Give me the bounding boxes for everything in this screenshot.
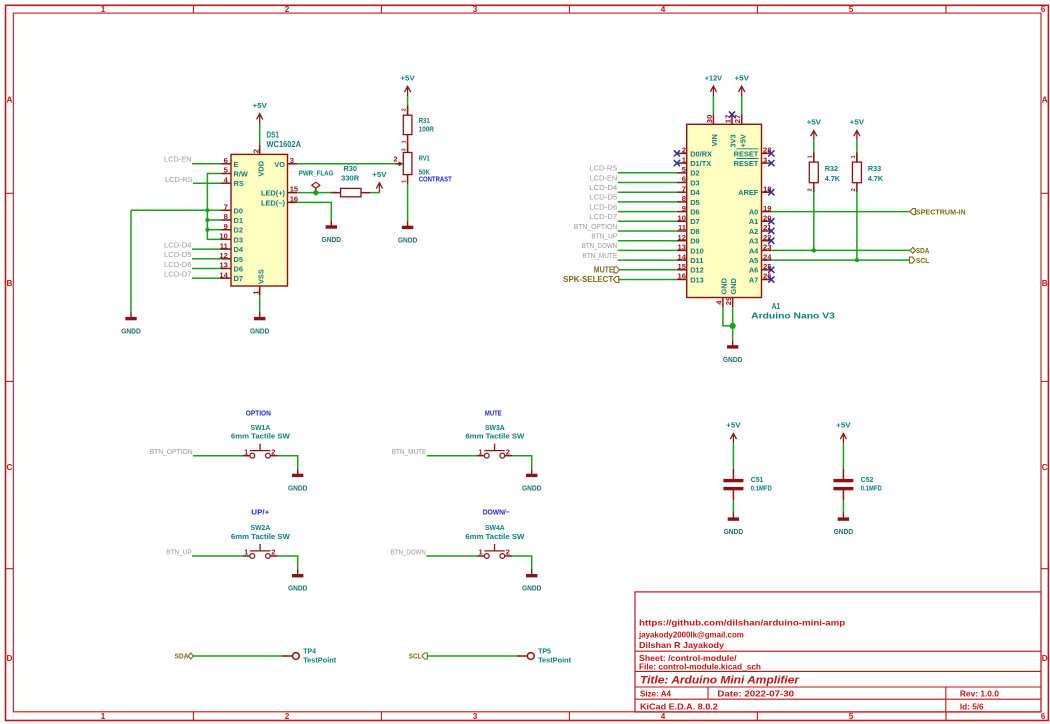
potentiometer RV1 (407, 143, 409, 153)
lcd pin 5 (R/W) (221, 173, 231, 175)
svg-text:R30: R30 (343, 164, 357, 173)
lcd pin 7 (D0) (221, 209, 231, 211)
svg-text:A6: A6 (749, 266, 758, 275)
wire SCL to TP5 (427, 655, 520, 657)
svg-text:LED(−): LED(−) (261, 198, 286, 207)
svg-text:TP4: TP4 (303, 647, 317, 656)
svg-text:6: 6 (224, 156, 228, 165)
power +5V (LCD VDD) (259, 114, 261, 124)
svg-text:C: C (6, 463, 12, 472)
svg-text:BTN_OPTION: BTN_OPTION (574, 222, 618, 231)
wire VSS to ground (259, 296, 261, 312)
power +5V (backlight) (378, 183, 380, 193)
arduino pin 14 (D11) (677, 259, 687, 261)
svg-text:5: 5 (849, 5, 854, 14)
svg-text:3: 3 (290, 156, 294, 165)
testpoint TP5 (518, 655, 528, 657)
svg-text:Id: 5/6: Id: 5/6 (960, 701, 984, 711)
svg-text:SPECTRUM-IN: SPECTRUM-IN (916, 207, 966, 216)
svg-text:3: 3 (473, 712, 478, 721)
svg-text:A5: A5 (749, 256, 758, 265)
svg-text:GNDD: GNDD (398, 235, 418, 244)
arduino pin 26 (A7) (762, 279, 772, 281)
arduino pin 9 (D6) (677, 211, 687, 213)
wire D0 to gnd rail (131, 209, 221, 211)
lcd pin 3 (VO) (288, 163, 298, 165)
svg-text:3: 3 (763, 155, 767, 164)
svg-text:+5V: +5V (726, 421, 740, 430)
svg-text:MUTE: MUTE (594, 265, 614, 274)
svg-text:23: 23 (763, 243, 771, 252)
svg-text:A0: A0 (749, 208, 758, 217)
svg-text:7: 7 (682, 184, 686, 193)
svg-text:LCD-RS: LCD-RS (165, 175, 193, 184)
arduino pin 30 (VIN) (712, 115, 714, 125)
svg-text:6mm Tactile SW: 6mm Tactile SW (231, 432, 291, 441)
svg-text:SPK-SELECT: SPK-SELECT (563, 275, 613, 284)
no-connect D1/TX (674, 160, 680, 166)
wire GND pins to ground (723, 307, 733, 326)
svg-text:LCD-D6: LCD-D6 (589, 202, 617, 211)
svg-text:RESET: RESET (734, 149, 759, 158)
svg-text:4.7K: 4.7K (868, 174, 884, 183)
lcd pin 14 (D7) (221, 277, 231, 279)
resistor R30 (331, 192, 340, 194)
wire BTN_UP to SW2A (192, 555, 243, 557)
ground GNDD (arduino) (732, 340, 734, 345)
svg-text:2: 2 (402, 108, 408, 111)
svg-text:9: 9 (224, 222, 228, 231)
wire BTN_OPTION (618, 230, 677, 232)
svg-text:D8: D8 (690, 227, 699, 236)
svg-text:1: 1 (101, 5, 106, 14)
svg-text:KiCad E.D.A. 8.0.2: KiCad E.D.A. 8.0.2 (640, 701, 718, 711)
svg-text:D6: D6 (690, 208, 699, 217)
svg-text:7: 7 (224, 203, 228, 212)
svg-text:13: 13 (678, 243, 686, 252)
power +5V (C52) (842, 433, 844, 443)
global label SPECTRUM-IN (910, 209, 915, 215)
svg-text:100R: 100R (419, 124, 435, 133)
svg-text:RV1: RV1 (419, 153, 430, 162)
svg-text:TestPoint: TestPoint (303, 656, 337, 665)
svg-text:1: 1 (251, 290, 260, 295)
wire gnd rail down (130, 210, 132, 312)
svg-text:LCD-D6: LCD-D6 (164, 260, 192, 269)
wire RV1 to ground (407, 184, 409, 221)
wire C51 to ground (732, 500, 734, 512)
wire LCD-RS to pin RS (193, 182, 221, 184)
svg-text:0.1MFD: 0.1MFD (751, 483, 772, 492)
lcd pin 6 (E) (221, 163, 231, 165)
svg-text:15: 15 (678, 262, 687, 271)
lcd pin 2 (VDD) top (259, 145, 261, 155)
svg-text:D0/RX: D0/RX (690, 149, 712, 158)
ground GNDD (C51) (732, 513, 734, 518)
arduino pin 29 (GND) (732, 298, 734, 308)
svg-text:24: 24 (763, 252, 772, 261)
svg-text:16: 16 (290, 194, 298, 203)
svg-text:R33: R33 (868, 164, 881, 173)
lcd pin 13 (D6) (221, 268, 231, 270)
global label SCL (910, 257, 915, 263)
wire to D2 (207, 229, 221, 231)
arduino pin 16 (D13) (677, 279, 687, 281)
svg-text:2: 2 (285, 5, 290, 14)
lcd pin 16 (LED-) (288, 201, 298, 203)
svg-text:D5: D5 (234, 255, 243, 264)
no-connect A7 (768, 276, 774, 282)
wire +5V to VDD (259, 124, 261, 145)
svg-text:2: 2 (506, 447, 510, 456)
wire R30 to +5V (370, 192, 379, 194)
svg-text:BTN_DOWN: BTN_DOWN (582, 241, 618, 250)
svg-text:4: 4 (714, 300, 723, 305)
junction D2/bus (205, 228, 209, 232)
wire LCD-D7 (192, 277, 221, 279)
svg-text:4: 4 (661, 5, 666, 14)
svg-text:VSS: VSS (256, 269, 265, 284)
arduino pin 18 (AREF) (762, 191, 772, 193)
svg-text:6mm Tactile SW: 6mm Tactile SW (465, 532, 525, 541)
svg-text:8: 8 (224, 212, 228, 221)
svg-text:29: 29 (724, 297, 733, 306)
svg-text:+12V: +12V (705, 73, 722, 82)
svg-text:2: 2 (251, 149, 260, 153)
junction R33 (855, 258, 859, 262)
svg-text:SDA: SDA (916, 246, 930, 255)
svg-text:A: A (1042, 96, 1048, 105)
svg-text:LCD-EN: LCD-EN (590, 173, 618, 182)
arduino pin 25 (A6) (762, 269, 772, 271)
svg-text:A2: A2 (749, 227, 758, 236)
svg-text:TP5: TP5 (538, 647, 551, 656)
lcd pin 11 (D4) (221, 248, 231, 250)
wire SDA to TP4 (193, 655, 285, 657)
wire LCD-D6 (618, 211, 677, 213)
svg-text:LCD-D5: LCD-D5 (589, 193, 617, 202)
svg-text:6: 6 (682, 175, 686, 184)
svg-text:C: C (1042, 463, 1048, 472)
svg-text:11: 11 (678, 223, 687, 232)
wire R32 to bus (813, 192, 815, 250)
svg-text:D13: D13 (690, 275, 704, 284)
svg-text:2: 2 (271, 548, 275, 557)
arduino pin 15 (D12) (677, 269, 687, 271)
no-connect A2 (768, 228, 774, 234)
svg-text:3V3: 3V3 (729, 134, 738, 147)
wire BTN_UP (618, 240, 677, 242)
svg-text:A4: A4 (749, 246, 759, 255)
wire SW4A to ground (512, 556, 532, 569)
ground GNDD (LCD VSS) (259, 312, 261, 317)
svg-text:https://github.com/dilshan/ard: https://github.com/dilshan/arduino-mini-… (639, 618, 845, 628)
wire +5V to R33 (856, 140, 858, 162)
svg-text:MUTE: MUTE (485, 408, 502, 417)
wire A5 to SCL (771, 259, 909, 261)
wire VO to RV1 wiper (297, 163, 395, 165)
svg-text:+5V: +5V (807, 118, 821, 127)
junction D1/bus (205, 218, 209, 222)
wire C52 to ground (842, 500, 844, 512)
svg-text:BTN_MUTE: BTN_MUTE (582, 251, 617, 260)
svg-text:GNDD: GNDD (288, 584, 308, 593)
svg-text:6: 6 (1041, 712, 1046, 721)
svg-text:1: 1 (244, 548, 248, 557)
svg-text:OPTION: OPTION (246, 408, 271, 417)
svg-text:BTN_OPTION: BTN_OPTION (150, 447, 193, 456)
ground GNDD (SW3A) (531, 469, 533, 474)
svg-text:GNDD: GNDD (834, 527, 854, 536)
frame row letters (6, 96, 1047, 664)
svg-text:+5V: +5V (850, 118, 864, 127)
svg-text:GNDD: GNDD (322, 235, 342, 244)
svg-text:D2: D2 (234, 226, 243, 235)
no-connect D0/RX (674, 150, 680, 156)
svg-text:D11: D11 (690, 256, 703, 265)
wire BTN_DOWN (618, 249, 677, 251)
wire SW1A to ground (278, 456, 298, 469)
arduino pin 5 (D2) (677, 172, 687, 174)
svg-text:GNDD: GNDD (250, 327, 270, 336)
svg-text:BTN_DOWN: BTN_DOWN (391, 547, 426, 556)
svg-text:D2: D2 (690, 169, 699, 178)
svg-text:+5V: +5V (253, 101, 267, 110)
svg-text:11: 11 (220, 241, 229, 250)
svg-text:8: 8 (682, 194, 686, 203)
svg-text:LCD-D4: LCD-D4 (164, 241, 192, 250)
wire BTN_DOWN to SW4A (426, 555, 477, 557)
svg-text:+5V: +5V (735, 73, 749, 82)
lcd pin 12 (D5) (221, 258, 231, 260)
svg-text:D1: D1 (234, 216, 243, 225)
svg-text:3: 3 (473, 5, 478, 14)
svg-text:6: 6 (1041, 5, 1046, 14)
wire LED- to ground (297, 202, 331, 220)
svg-text:PWR_FLAG: PWR_FLAG (299, 169, 334, 178)
arduino pin 23 (A4) (762, 249, 772, 251)
wire SW3A to ground (512, 456, 532, 469)
wire LCD-D6 (192, 268, 221, 270)
svg-text:2: 2 (271, 447, 275, 456)
frame column ticks top/bottom (193, 5, 946, 720)
lcd pin 4 (RS) (221, 182, 231, 184)
wire LCD-EN (618, 182, 677, 184)
svg-text:BTN_UP: BTN_UP (591, 232, 617, 241)
wire A0 to SPECTRUM-IN (771, 211, 910, 213)
svg-text:1: 1 (479, 447, 483, 456)
ground GNDD (data rail) (130, 312, 132, 317)
lcd pin 1 (VSS) bottom (259, 286, 261, 296)
svg-text:SW3A: SW3A (485, 423, 505, 432)
wire BTN_OPTION to SW1A (193, 455, 243, 457)
arduino pin 12 (D9) (677, 240, 687, 242)
wire BTN_MUTE to SW3A (427, 455, 477, 457)
no-connect AREF (768, 189, 774, 195)
resistor R33 (856, 152, 858, 162)
svg-text:R32: R32 (825, 164, 838, 173)
ground GNDD (C52) (842, 513, 844, 518)
svg-text:A: A (6, 96, 12, 105)
wire A4 to SDA (771, 249, 910, 251)
power +5V (C51) (732, 433, 734, 443)
svg-text:VO: VO (274, 160, 285, 169)
svg-text:A3: A3 (749, 237, 758, 246)
svg-text:GNDD: GNDD (121, 327, 141, 336)
svg-text:E: E (234, 160, 239, 169)
svg-text:B: B (1042, 279, 1048, 288)
svg-text:330R: 330R (341, 174, 360, 183)
power +5V (contrast divider) (407, 86, 409, 96)
svg-text:D4: D4 (234, 245, 244, 254)
svg-text:AREF: AREF (738, 188, 759, 197)
resistor R31 (407, 106, 409, 116)
svg-text:SW4A: SW4A (485, 523, 505, 532)
svg-text:GNDD: GNDD (723, 355, 743, 364)
arduino pin 1 (D1/TX) (677, 162, 687, 164)
svg-text:10: 10 (678, 214, 686, 223)
arduino pin 22 (A3) (762, 240, 772, 242)
lcd module DS1 body (231, 154, 288, 286)
wire LCD-D4 (618, 191, 677, 193)
wire SW2A to ground (278, 556, 298, 569)
svg-text:Rev: 1.0.0: Rev: 1.0.0 (960, 688, 999, 698)
svg-text:2: 2 (394, 154, 398, 163)
arduino A1 body (687, 124, 762, 297)
svg-text:6mm Tactile SW: 6mm Tactile SW (465, 432, 525, 441)
svg-text:D7: D7 (690, 217, 699, 226)
power +5V (R32) (813, 130, 815, 140)
svg-text:DOWN/−: DOWN/− (483, 507, 510, 516)
svg-text:1: 1 (101, 712, 106, 721)
svg-text:27: 27 (733, 115, 742, 124)
svg-text:LCD-RS: LCD-RS (590, 164, 618, 173)
svg-text:D12: D12 (690, 266, 704, 275)
arduino pin 2 (D0/RX) (677, 152, 687, 154)
svg-text:+5V: +5V (372, 170, 386, 179)
svg-text:LCD-EN: LCD-EN (164, 155, 192, 164)
wire LCD-D7 (618, 220, 677, 222)
ground GNDD (SW2A) (297, 569, 299, 574)
svg-text:1: 1 (244, 447, 248, 456)
svg-text:D4: D4 (690, 188, 700, 197)
ground GNDD (SW1A) (297, 469, 299, 474)
svg-text:D: D (1042, 654, 1048, 663)
no-connect 3V3 (729, 111, 735, 117)
svg-text:DS1: DS1 (267, 130, 280, 140)
junction GND (730, 323, 736, 329)
svg-text:6mm Tactile SW: 6mm Tactile SW (231, 532, 291, 541)
arduino pin 17 (3V3) (731, 115, 733, 125)
svg-text:19: 19 (763, 204, 771, 213)
wire R31 to RV1 (407, 144, 409, 152)
svg-text:D1/TX: D1/TX (690, 159, 711, 168)
testpoint TP4 (283, 655, 293, 657)
svg-text:B: B (6, 279, 12, 288)
svg-text:9: 9 (682, 204, 686, 213)
svg-text:+5V: +5V (400, 74, 414, 83)
wire SPK-SELECT to D13 (619, 279, 677, 281)
power +5V (arduino) (741, 86, 743, 96)
arduino pin 13 (D10) (677, 249, 687, 251)
wire LED+ to R30 (297, 192, 336, 194)
wire LCD-D4 (192, 248, 221, 250)
svg-text:2: 2 (285, 712, 290, 721)
arduino pin 10 (D7) (677, 220, 687, 222)
svg-text:Size: A4: Size: A4 (640, 688, 671, 698)
svg-text:A1: A1 (772, 302, 781, 311)
svg-text:D0: D0 (234, 206, 243, 215)
wire LCD-D5 (618, 201, 677, 203)
global label SDA (910, 247, 915, 253)
svg-text:D10: D10 (690, 246, 704, 255)
wire R/W to D3 (grounded bus) (207, 174, 221, 240)
svg-text:2: 2 (682, 146, 686, 155)
svg-text:R/W: R/W (234, 170, 248, 179)
arduino pin 4 (GND) (722, 298, 724, 308)
svg-text:LED(+): LED(+) (261, 189, 286, 198)
wire +5V to R32 (813, 140, 815, 162)
svg-text:CONTRAST: CONTRAST (419, 175, 452, 184)
svg-text:SCL: SCL (916, 256, 930, 265)
arduino pin 20 (A1) (762, 220, 772, 222)
svg-text:Title: Arduino Mini Amplifier: Title: Arduino Mini Amplifier (640, 675, 800, 687)
svg-text:TestPoint: TestPoint (538, 656, 572, 665)
svg-text:16: 16 (678, 272, 686, 281)
arduino pin 7 (D4) (677, 191, 687, 193)
svg-text:WC1602A: WC1602A (267, 139, 302, 149)
svg-text:BTN_UP: BTN_UP (166, 547, 191, 556)
arduino pin 28 (RESET) (762, 152, 772, 154)
no-connect RESET3 (768, 160, 774, 166)
arduino pin 3 (RESET) (762, 162, 772, 164)
junction D0/bus (205, 208, 209, 212)
svg-text:D6: D6 (234, 265, 243, 274)
wire +5V to R31 (407, 96, 409, 115)
svg-text:GNDD: GNDD (522, 584, 542, 593)
power +12V (VIN) (712, 86, 714, 96)
ground GNDD (backlight) (330, 220, 332, 225)
svg-text:1: 1 (479, 548, 483, 557)
lcd pin 15 (LED+) (288, 192, 298, 194)
svg-text:A7: A7 (749, 275, 758, 284)
svg-text:LCD-D5: LCD-D5 (164, 250, 192, 259)
svg-text:GND: GND (720, 277, 729, 294)
frame row ticks left/right (6, 193, 1049, 568)
svg-text:LCD-D4: LCD-D4 (589, 183, 617, 192)
title block (635, 592, 1041, 712)
wire R33 to bus (856, 192, 858, 260)
svg-text:GND: GND (729, 277, 738, 294)
lcd pin 8 (D1) (221, 219, 231, 221)
svg-text:D9: D9 (690, 237, 699, 246)
no-connect A1 (768, 218, 774, 224)
svg-text:2: 2 (808, 188, 814, 191)
svg-text:Arduino Nano V3: Arduino Nano V3 (751, 312, 836, 321)
svg-text:LCD-D7: LCD-D7 (589, 212, 617, 221)
arduino pin 11 (D8) (677, 230, 687, 232)
no-connect A6 (768, 267, 774, 273)
svg-text:GNDD: GNDD (288, 483, 308, 492)
svg-text:0.1MFD: 0.1MFD (861, 483, 882, 492)
capacitor C51 (732, 469, 734, 479)
wire +12V to VIN (712, 96, 714, 115)
arduino pin 19 (A0) (762, 211, 772, 213)
svg-text:BTN_MUTE: BTN_MUTE (392, 447, 427, 456)
svg-text:Date: 2022-07-30: Date: 2022-07-30 (717, 688, 794, 698)
arduino pin 27 (+5V) (741, 115, 743, 125)
svg-text:D: D (6, 654, 12, 663)
